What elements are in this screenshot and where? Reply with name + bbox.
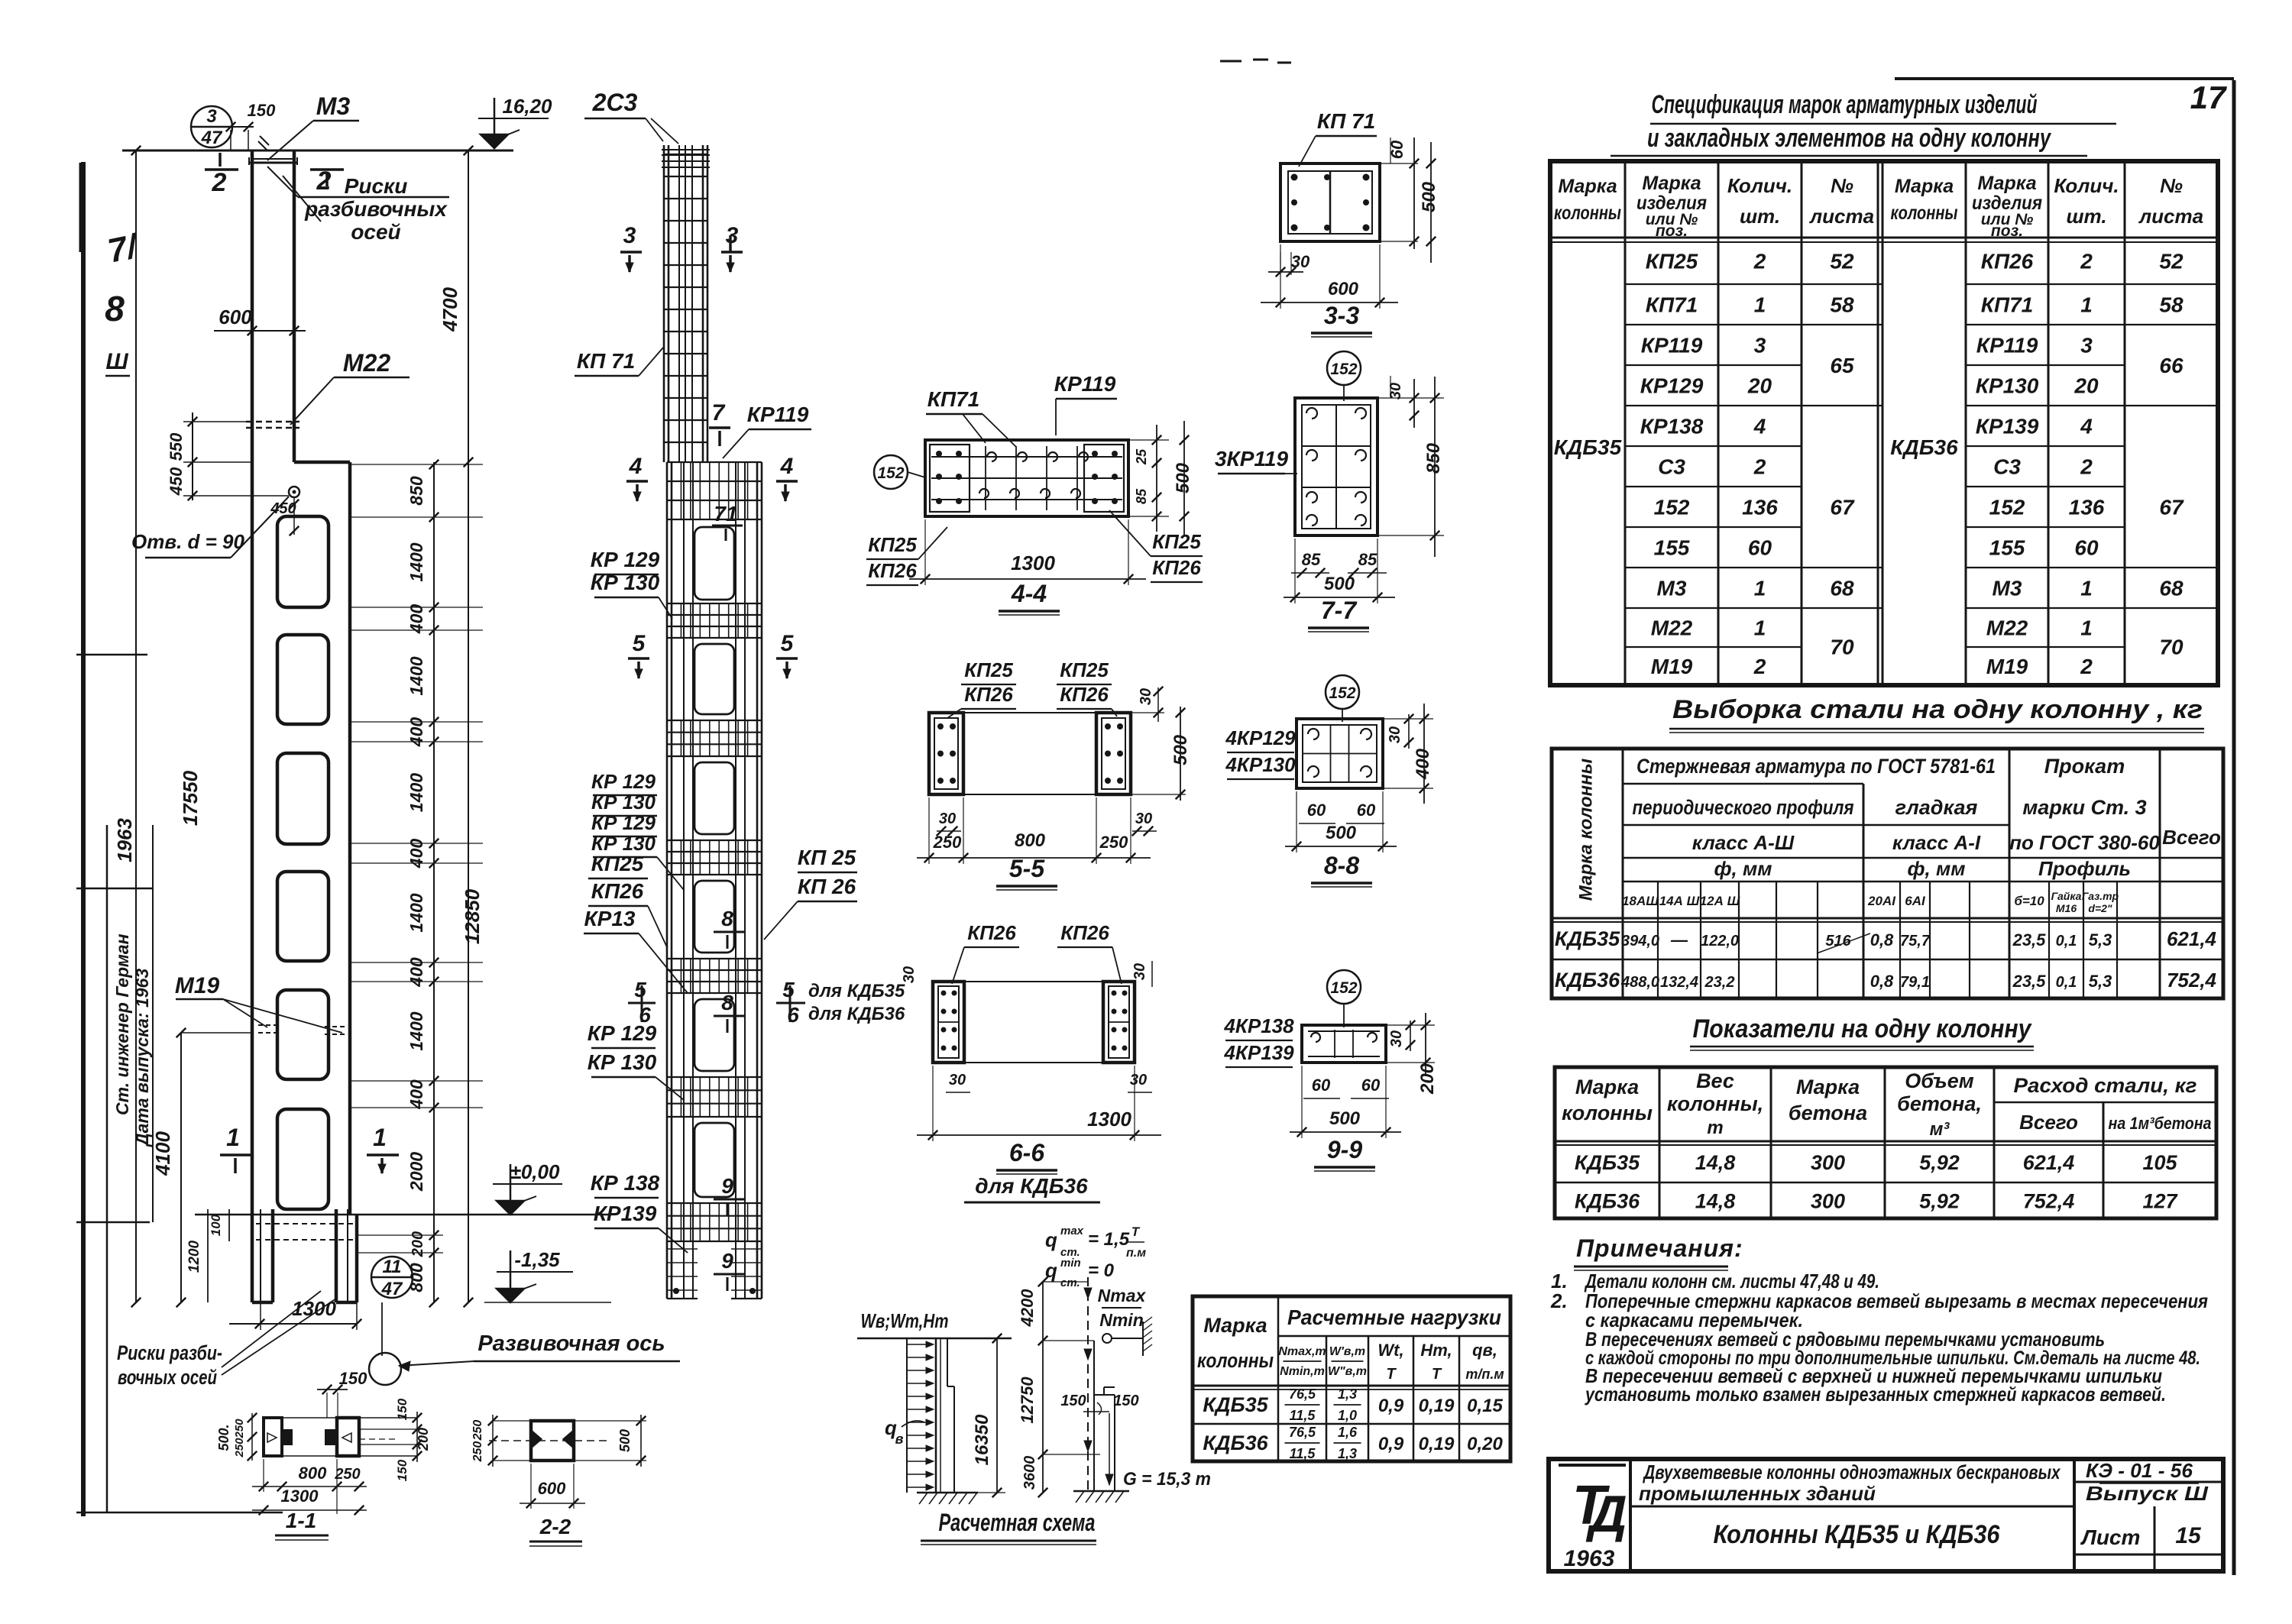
svg-text:600: 600 [538, 1479, 566, 1498]
svg-text:7: 7 [712, 400, 726, 425]
svg-text:Спецификация марок арматурны: Спецификация марок арматурных изделий [1652, 90, 2038, 119]
svg-text:47: 47 [381, 1279, 403, 1299]
svg-text:70: 70 [2159, 636, 2184, 659]
svg-text:621,4: 621,4 [2167, 927, 2217, 950]
svg-text:20: 20 [1747, 374, 1772, 398]
svg-text:76,5: 76,5 [1289, 1386, 1316, 1402]
svg-text:Марка: Марка [1203, 1314, 1267, 1337]
svg-text:п.м: п.м [1126, 1247, 1146, 1260]
svg-text:8-8: 8-8 [1324, 852, 1359, 879]
svg-text:КЭ - 01 - 56: КЭ - 01 - 56 [2086, 1459, 2193, 1482]
svg-text:Марка колонны: Марка колонны [1576, 758, 1597, 901]
svg-text:4КР129: 4КР129 [1225, 726, 1296, 749]
svg-text:20АI: 20АI [1867, 894, 1896, 908]
svg-text:1200: 1200 [186, 1240, 202, 1273]
svg-text:КП26: КП26 [964, 683, 1013, 706]
svg-text:№: № [1831, 174, 1853, 197]
svg-text:85: 85 [1302, 550, 1321, 569]
svg-text:23,5: 23,5 [2012, 972, 2047, 991]
svg-text:№: № [2160, 174, 2183, 197]
svg-text:105: 105 [2142, 1151, 2177, 1174]
svg-text:200: 200 [1417, 1063, 1438, 1095]
svg-text:0,9: 0,9 [1378, 1396, 1404, 1416]
svg-text:d=2": d=2" [2088, 902, 2112, 914]
svg-text:488,0: 488,0 [1620, 974, 1659, 991]
svg-text:min: min [1060, 1257, 1081, 1270]
svg-text:65: 65 [1830, 354, 1854, 377]
svg-text:400: 400 [1413, 748, 1433, 780]
svg-text:17550: 17550 [179, 770, 202, 826]
svg-text:КП25: КП25 [964, 658, 1013, 681]
svg-text:17: 17 [2190, 79, 2227, 115]
svg-text:136: 136 [2069, 496, 2105, 519]
svg-text:5-5: 5-5 [1009, 855, 1045, 882]
svg-text:9-9: 9-9 [1327, 1136, 1362, 1163]
svg-text:150: 150 [1113, 1393, 1138, 1409]
svg-text:Марка: Марка [1796, 1076, 1860, 1098]
svg-text:Риски: Риски [345, 174, 408, 198]
svg-text:Выпуск Ш: Выпуск Ш [2086, 1482, 2209, 1505]
svg-text:5: 5 [781, 631, 795, 656]
svg-text:30: 30 [949, 1072, 966, 1089]
svg-text:Расчетная схема: Расчетная схема [939, 1509, 1096, 1536]
svg-text:0,19: 0,19 [1419, 1434, 1455, 1454]
svg-text:2: 2 [2080, 250, 2093, 273]
svg-text:0,19: 0,19 [1419, 1396, 1455, 1416]
svg-text:W"в,т: W"в,т [1328, 1365, 1367, 1378]
svg-text:4700: 4700 [439, 287, 461, 332]
svg-text:250: 250 [1099, 833, 1128, 852]
svg-text:КП71: КП71 [927, 387, 980, 411]
svg-text:КП 26: КП 26 [798, 875, 856, 898]
svg-text:КР119: КР119 [1054, 372, 1116, 396]
svg-text:1: 1 [1754, 616, 1766, 640]
svg-text:Nmin: Nmin [1099, 1310, 1144, 1330]
svg-text:КР119: КР119 [747, 403, 809, 426]
svg-text:4: 4 [629, 454, 643, 479]
svg-text:621,4: 621,4 [2023, 1151, 2075, 1174]
svg-text:Двухветвевые колонны одноэта: Двухветвевые колонны одноэтажных бескран… [1643, 1461, 2061, 1483]
svg-text:3600: 3600 [1021, 1456, 1038, 1490]
svg-text:11,5: 11,5 [1290, 1408, 1316, 1423]
svg-text:9: 9 [721, 1174, 733, 1198]
svg-text:0,1: 0,1 [2056, 933, 2077, 949]
svg-text:5,3: 5,3 [2089, 972, 2112, 991]
svg-text:КДБ35: КДБ35 [1203, 1393, 1268, 1416]
svg-text:М16: М16 [2056, 902, 2077, 914]
svg-text:1400: 1400 [406, 542, 426, 581]
svg-text:3КР119: 3КР119 [1215, 447, 1289, 471]
svg-text:1: 1 [226, 1124, 240, 1151]
svg-text:300: 300 [1811, 1190, 1845, 1213]
svg-text:30: 30 [901, 966, 918, 983]
svg-text:4200: 4200 [1018, 1289, 1037, 1328]
svg-text:4: 4 [1753, 415, 1766, 438]
svg-text:Гайка: Гайка [2051, 890, 2082, 902]
svg-text:Всего: Всего [2162, 826, 2221, 849]
svg-text:КР119: КР119 [1641, 334, 1703, 357]
svg-text:8: 8 [105, 289, 125, 328]
svg-text:7-7: 7-7 [1321, 597, 1358, 624]
svg-text:КП 25: КП 25 [798, 846, 856, 869]
svg-text:3: 3 [1754, 334, 1766, 357]
svg-text:47: 47 [201, 128, 223, 148]
svg-text:Нт,: Нт, [1420, 1341, 1452, 1360]
svg-text:500: 500 [1326, 823, 1357, 843]
svg-text:КДБ36: КДБ36 [1203, 1432, 1268, 1454]
svg-text:для КДБ35: для КДБ35 [808, 981, 905, 1001]
svg-text:Т: Т [1386, 1366, 1397, 1383]
svg-text:КР 129: КР 129 [591, 811, 656, 834]
svg-text:в: в [895, 1432, 904, 1447]
svg-text:1: 1 [1754, 293, 1766, 317]
svg-text:установить только взамен в: установить только взамен вырезанных стер… [1584, 1383, 2166, 1406]
svg-text:0,20: 0,20 [1467, 1434, 1503, 1454]
svg-text:периодического профиля: периодического профиля [1633, 796, 1854, 819]
svg-text:1-1: 1-1 [286, 1509, 316, 1532]
svg-text:1,6: 1,6 [1338, 1425, 1358, 1440]
svg-text:60: 60 [1748, 536, 1772, 560]
svg-text:М22: М22 [1651, 616, 1693, 640]
svg-text:76,5: 76,5 [1289, 1425, 1316, 1440]
svg-text:2: 2 [1753, 250, 1766, 273]
svg-text:для КДБ36: для КДБ36 [975, 1174, 1088, 1198]
svg-text:КП71: КП71 [1981, 293, 2034, 317]
svg-text:Т: Т [1432, 1366, 1442, 1383]
svg-text:67: 67 [2159, 496, 2184, 519]
svg-text:С3: С3 [1993, 455, 2021, 479]
svg-text:12А Ш: 12А Ш [1700, 894, 1740, 908]
svg-text:23,5: 23,5 [2012, 930, 2047, 949]
svg-text:150: 150 [248, 101, 276, 120]
svg-text:поз.: поз. [1656, 222, 1688, 240]
svg-text:1300: 1300 [1087, 1108, 1131, 1131]
svg-text:КП25: КП25 [1152, 530, 1201, 553]
svg-text:КП26: КП26 [967, 921, 1016, 944]
svg-text:6-6: 6-6 [1009, 1139, 1044, 1166]
svg-text:500: 500 [617, 1429, 633, 1452]
svg-text:Wt,: Wt, [1377, 1341, 1403, 1360]
svg-text:14А Ш: 14А Ш [1659, 894, 1700, 908]
svg-text:30: 30 [1138, 688, 1154, 705]
svg-text:850: 850 [1423, 442, 1444, 474]
svg-text:500.: 500. [216, 1424, 231, 1451]
svg-text:11,5: 11,5 [1290, 1446, 1316, 1461]
svg-text:4: 4 [2080, 415, 2093, 438]
svg-text:4100: 4100 [151, 1131, 174, 1176]
svg-text:9: 9 [721, 1249, 733, 1273]
svg-text:1300: 1300 [1011, 552, 1055, 574]
svg-text:20: 20 [2073, 374, 2099, 398]
svg-text:152: 152 [1329, 684, 1355, 702]
svg-text:11: 11 [383, 1257, 402, 1277]
svg-text:КДБ36: КДБ36 [1555, 969, 1620, 992]
svg-text:КР129: КР129 [1640, 374, 1704, 398]
svg-text:Nmax,т: Nmax,т [1278, 1345, 1326, 1358]
svg-text:КР 130: КР 130 [591, 791, 656, 814]
svg-text:152: 152 [877, 464, 904, 482]
svg-text:М19: М19 [1986, 655, 2028, 678]
svg-text:Выборка стали на одну коло: Выборка стали на одну колонну , кг [1672, 695, 2203, 724]
svg-text:Прокат: Прокат [2044, 755, 2125, 778]
svg-text:150: 150 [1060, 1393, 1086, 1409]
svg-text:М3: М3 [1993, 577, 2022, 600]
svg-text:250: 250 [233, 1419, 246, 1439]
svg-text:Ш: Ш [105, 349, 128, 374]
svg-text:М22: М22 [343, 349, 390, 377]
svg-text:1400: 1400 [406, 893, 426, 932]
svg-text:100: 100 [209, 1214, 223, 1236]
svg-text:КП26: КП26 [1981, 250, 2034, 273]
svg-text:Вес: Вес [1696, 1069, 1734, 1092]
svg-text:1: 1 [2080, 577, 2093, 600]
svg-text:0,15: 0,15 [1467, 1396, 1503, 1416]
svg-text:4-4: 4-4 [1011, 580, 1047, 607]
svg-text:25: 25 [1134, 448, 1149, 465]
svg-text:30: 30 [1135, 810, 1152, 827]
svg-text:2000: 2000 [406, 1152, 426, 1192]
svg-text:30: 30 [939, 810, 956, 827]
svg-text:155: 155 [1989, 536, 2025, 560]
svg-text:150: 150 [339, 1369, 367, 1388]
svg-text:КР139: КР139 [594, 1202, 657, 1225]
svg-text:колонны: колонны [1891, 202, 1958, 224]
svg-text:3-3: 3-3 [1324, 302, 1359, 329]
svg-text:30: 30 [1131, 963, 1148, 980]
svg-text:16,20: 16,20 [502, 95, 552, 118]
svg-text:200: 200 [416, 1428, 431, 1451]
svg-text:КП26: КП26 [1060, 683, 1109, 706]
svg-text:колонны,: колонны, [1667, 1092, 1763, 1115]
svg-text:60: 60 [1312, 1076, 1331, 1095]
svg-text:листа: листа [2138, 205, 2203, 228]
svg-text:Т: Т [1131, 1224, 1141, 1239]
svg-text:250: 250 [334, 1466, 360, 1483]
svg-text:850: 850 [406, 476, 426, 506]
svg-text:400: 400 [406, 604, 426, 635]
svg-text:ст.: ст. [1060, 1276, 1080, 1289]
svg-text:М19: М19 [175, 973, 220, 998]
svg-text:5: 5 [782, 978, 795, 1001]
svg-text:колонны: колонны [1554, 202, 1621, 224]
svg-text:752,4: 752,4 [2023, 1190, 2075, 1213]
svg-text:КР13: КР13 [584, 907, 635, 930]
svg-text:ф, мм: ф, мм [1908, 857, 1966, 880]
svg-text:122,0: 122,0 [1701, 933, 1739, 949]
svg-text:1: 1 [2080, 293, 2093, 317]
svg-text:18АШ: 18АШ [1622, 894, 1659, 908]
svg-text:—: — [1670, 930, 1688, 949]
svg-text:3: 3 [2080, 334, 2093, 357]
svg-text:колонны: колонны [1197, 1349, 1274, 1372]
svg-text:2: 2 [316, 167, 332, 196]
svg-text:1,3: 1,3 [1338, 1386, 1357, 1402]
svg-text:12750: 12750 [1018, 1377, 1037, 1424]
svg-text:1,0: 1,0 [1338, 1408, 1357, 1423]
svg-text:0,8: 0,8 [1870, 972, 1894, 991]
svg-text:300: 300 [1811, 1151, 1845, 1174]
svg-text:79,1: 79,1 [1900, 974, 1930, 991]
svg-text:58: 58 [2159, 293, 2184, 317]
svg-text:152: 152 [1654, 496, 1690, 519]
svg-text:КР119: КР119 [1976, 334, 2038, 357]
svg-text:6АI: 6АI [1905, 894, 1926, 908]
svg-text:4КР138: 4КР138 [1223, 1014, 1294, 1037]
svg-text:450: 450 [167, 467, 186, 496]
svg-text:КП25: КП25 [1060, 658, 1109, 681]
svg-text:60: 60 [1361, 1076, 1381, 1095]
svg-text:т: т [1707, 1118, 1723, 1138]
svg-text:ф, мм: ф, мм [1714, 857, 1772, 880]
svg-text:Колонны КДБ35 и КДБ36: Колонны КДБ35 и КДБ36 [1714, 1520, 2001, 1549]
svg-text:500: 500 [1324, 574, 1355, 594]
svg-text:Расчетные нагрузки: Расчетные нагрузки [1287, 1305, 1501, 1329]
svg-text:2: 2 [1753, 455, 1766, 479]
svg-text:листа: листа [1808, 205, 1874, 228]
svg-text:3: 3 [726, 223, 739, 248]
svg-text:КДБ35: КДБ35 [1575, 1151, 1640, 1174]
svg-text:поз.: поз. [1991, 222, 2023, 240]
svg-text:1: 1 [2080, 616, 2093, 640]
svg-text:68: 68 [1830, 577, 1854, 600]
svg-text:66: 66 [2159, 354, 2184, 377]
svg-text:б=10: б=10 [2014, 894, 2044, 908]
svg-text:и закладных элементов на о: и закладных элементов на одну колонну [1647, 124, 2052, 153]
svg-text:60: 60 [1357, 801, 1376, 820]
svg-text:4КР139: 4КР139 [1223, 1041, 1294, 1064]
svg-text:60: 60 [2074, 536, 2099, 560]
svg-text:q: q [1045, 1228, 1057, 1251]
svg-text:шт.: шт. [1740, 205, 1780, 228]
svg-text:152: 152 [1330, 979, 1357, 997]
svg-text:250: 250 [933, 833, 962, 852]
svg-text:250: 250 [471, 1441, 484, 1463]
svg-text:Стержневая арматура по ГОСТ: Стержневая арматура по ГОСТ 5781-61 [1636, 755, 1996, 778]
svg-text:осей: осей [351, 220, 400, 244]
svg-text:Всего: Всего [2019, 1111, 2078, 1134]
svg-text:Колич.: Колич. [2054, 174, 2119, 197]
svg-text:по ГОСТ 380-60: по ГОСТ 380-60 [2009, 831, 2160, 854]
svg-text:8: 8 [721, 907, 733, 930]
svg-text:52: 52 [1830, 250, 1854, 273]
svg-text:Ст. инженер Герман: Ст. инженер Герман [112, 933, 132, 1115]
svg-text:М19: М19 [1651, 655, 1693, 678]
svg-text:500: 500 [1329, 1108, 1361, 1129]
svg-text:КП 71: КП 71 [577, 349, 635, 373]
svg-text:Марка: Марка [1575, 1076, 1639, 1098]
svg-text:3: 3 [206, 106, 217, 127]
svg-text:Марка: Марка [1895, 176, 1954, 197]
svg-text:М3: М3 [1657, 577, 1687, 600]
svg-text:2-2: 2-2 [539, 1515, 571, 1538]
svg-text:±0,00: ±0,00 [510, 1160, 560, 1183]
svg-text:Марка: Марка [1558, 176, 1617, 197]
svg-text:КР138: КР138 [1640, 415, 1704, 438]
svg-text:2: 2 [2080, 455, 2093, 479]
svg-text:600: 600 [219, 306, 252, 328]
svg-text:КП71: КП71 [1646, 293, 1698, 317]
svg-text:КР 129: КР 129 [591, 548, 660, 571]
svg-text:для КДБ36: для КДБ36 [808, 1004, 905, 1024]
svg-text:16350: 16350 [972, 1414, 992, 1465]
svg-text:0,1: 0,1 [2056, 974, 2077, 991]
svg-text:КР139: КР139 [1976, 415, 2039, 438]
svg-text:152: 152 [1330, 361, 1357, 378]
svg-text:2.: 2. [1550, 1289, 1568, 1312]
svg-text:71: 71 [714, 502, 737, 526]
svg-text:Лист: Лист [2080, 1525, 2141, 1549]
svg-text:1400: 1400 [406, 656, 426, 695]
svg-text:800: 800 [1015, 830, 1046, 851]
svg-text:КДБ35: КДБ35 [1555, 927, 1620, 950]
svg-text:500: 500 [1419, 181, 1439, 212]
svg-text:Марка: Марка [1977, 173, 2036, 194]
svg-text:150: 150 [395, 1459, 410, 1481]
svg-text:КДБ36: КДБ36 [1575, 1190, 1640, 1213]
svg-text:1: 1 [373, 1124, 387, 1151]
svg-text:КР 130: КР 130 [588, 1050, 657, 1074]
svg-text:шт.: шт. [2066, 205, 2106, 228]
svg-text:1963: 1963 [113, 818, 136, 862]
svg-text:на 1м³бетона: на 1м³бетона [2109, 1114, 2212, 1133]
svg-text:Марка: Марка [1642, 173, 1701, 194]
svg-text:КП26: КП26 [1060, 921, 1109, 944]
svg-text:Wв;Wт,Нт: Wв;Wт,Нт [861, 1309, 949, 1332]
svg-text:1,3: 1,3 [1338, 1446, 1357, 1461]
svg-text:400: 400 [406, 1079, 426, 1110]
svg-text:14,8: 14,8 [1695, 1190, 1736, 1213]
svg-text:max: max [1060, 1224, 1084, 1237]
svg-text:W'в,т: W'в,т [1329, 1345, 1365, 1358]
svg-text:М22: М22 [1986, 616, 2028, 640]
svg-text:394,0: 394,0 [1621, 933, 1659, 949]
svg-text:1400: 1400 [406, 773, 426, 812]
svg-text:разбивочных: разбивочных [304, 197, 448, 221]
svg-text:С3: С3 [1658, 455, 1685, 479]
svg-text:3: 3 [623, 223, 636, 248]
svg-text:КП25: КП25 [1646, 250, 1698, 273]
svg-text:Развивочная ось: Развивочная ось [477, 1331, 665, 1356]
svg-text:Д: Д [1585, 1485, 1627, 1543]
svg-text:КР 130: КР 130 [591, 571, 660, 594]
svg-text:КП26: КП26 [591, 879, 644, 903]
svg-text:752,4: 752,4 [2167, 969, 2217, 992]
svg-text:Показатели на одну колонну: Показатели на одну колонну [1693, 1014, 2033, 1043]
svg-text:30: 30 [1387, 726, 1403, 743]
svg-text:8: 8 [721, 991, 733, 1014]
svg-text:58: 58 [1830, 293, 1854, 317]
svg-text:1: 1 [1754, 577, 1766, 600]
svg-text:5: 5 [633, 631, 646, 656]
svg-text:т/п.м: т/п.м [1465, 1367, 1504, 1382]
svg-text:КП25: КП25 [868, 533, 917, 556]
svg-text:30: 30 [1387, 383, 1404, 400]
svg-text:67: 67 [1830, 496, 1855, 519]
svg-text:Отв. d = 90: Отв. d = 90 [131, 530, 244, 553]
svg-text:м³: м³ [1930, 1119, 1950, 1140]
svg-text:600: 600 [1328, 279, 1359, 299]
svg-text:вочных осей: вочных осей [118, 1366, 217, 1389]
svg-text:марки Ст. 3: марки Ст. 3 [2022, 796, 2146, 819]
svg-text:КП25: КП25 [591, 852, 644, 875]
svg-text:60: 60 [1307, 801, 1326, 820]
svg-text:класс А-Ш: класс А-Ш [1692, 831, 1795, 854]
svg-text:70: 70 [1830, 636, 1854, 659]
svg-text:КР 129: КР 129 [591, 770, 656, 793]
svg-text:1963: 1963 [1564, 1546, 1615, 1571]
svg-text:КП26: КП26 [1152, 556, 1201, 579]
svg-text:Риски разби-: Риски разби- [117, 1341, 222, 1364]
